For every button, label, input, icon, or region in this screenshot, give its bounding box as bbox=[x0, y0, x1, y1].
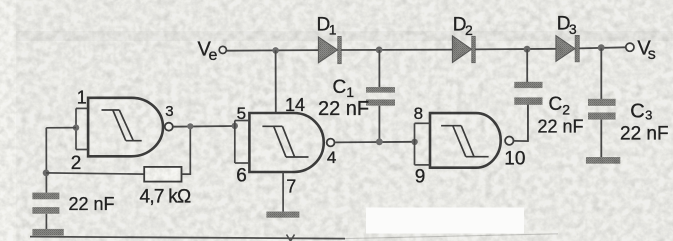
label C2 bbox=[549, 94, 571, 117]
op U1c: Schmitt NAND gate 3 body bbox=[430, 113, 501, 168]
label Vs bbox=[637, 37, 655, 63]
wire: down to timing cap bbox=[45, 128, 47, 193]
node: cap / feedback junction bbox=[43, 170, 50, 177]
label Ve bbox=[198, 39, 218, 65]
node junction: rail to C2 bbox=[524, 46, 531, 53]
bubble output U1a bbox=[165, 123, 173, 131]
node junction: rail to pin 14 bbox=[272, 47, 279, 54]
ground (timing cap) bbox=[32, 229, 63, 236]
op U1a: Schmitt NAND gate 1 body bbox=[88, 98, 163, 157]
capacitor C2 bbox=[514, 49, 542, 141]
wire: feedback node to resistor bbox=[46, 173, 144, 174]
resistor R1 4,7 kOhm bbox=[144, 167, 181, 182]
ground (pin 7) bbox=[266, 212, 299, 218]
input bracket U1c (pins 8-9 tied) bbox=[415, 123, 430, 165]
scan artifact: clipped glyph bbox=[287, 235, 295, 241]
wire: D3 cathode to Vs terminal bbox=[580, 47, 626, 48]
input bracket U1b (pins 5-6 tied) bbox=[235, 121, 249, 164]
capacitor C3 bbox=[588, 48, 616, 157]
lighter left margin bbox=[0, 0, 16, 241]
node junction: rail to C1 bbox=[376, 47, 383, 54]
diode D3 bbox=[556, 35, 579, 62]
label D2 bbox=[453, 15, 473, 38]
wire: U1a output to U1b input bbox=[173, 125, 235, 128]
label D1 bbox=[317, 14, 337, 37]
ground (C3) bbox=[586, 157, 620, 164]
wire: U1b output to U1c input bbox=[335, 141, 415, 144]
label C1 bbox=[333, 77, 355, 100]
input bracket U1a (pins 1-2 tied) bbox=[76, 108, 88, 149]
hysteresis symbol U1c bbox=[441, 126, 489, 157]
wire: rail down to pin 14 of U1b bbox=[275, 50, 277, 113]
white correction patch bbox=[366, 208, 524, 234]
node: input of U1c bbox=[411, 139, 417, 145]
terminal Ve (input node) bbox=[219, 46, 226, 53]
hysteresis symbol U1b bbox=[262, 126, 308, 157]
scan artifact: bottom rule bbox=[30, 237, 345, 239]
op U1b: Schmitt NAND gate 2 body bbox=[249, 113, 323, 172]
label C3 bbox=[630, 101, 652, 123]
label D3 bbox=[557, 14, 577, 38]
capacitor 22 nF (timing, left) bbox=[32, 193, 59, 230]
capacitor C1 bbox=[366, 50, 395, 142]
diode D1 bbox=[318, 36, 341, 64]
faint scan band top bbox=[16, 31, 673, 41]
terminal Vs (output node) bbox=[626, 43, 634, 51]
node junction: rail to C3 bbox=[598, 44, 605, 51]
node: output 3 / feedback bbox=[187, 123, 193, 129]
wire: D1 cathode to D2 anode bbox=[341, 49, 452, 51]
wire: resistor to output node bbox=[182, 126, 191, 174]
wire: Ve terminal to D1 anode bbox=[227, 49, 319, 52]
node: input of U1a bbox=[73, 124, 79, 130]
diode D2 bbox=[452, 36, 475, 63]
wire: U1c output up to C2 bottom bbox=[514, 105, 528, 141]
node: input of U1b bbox=[232, 123, 238, 129]
hysteresis symbol U1a bbox=[102, 110, 142, 141]
wire: input node left bbox=[46, 127, 76, 129]
wire: D2 cathode to D3 anode bbox=[475, 48, 556, 51]
bubble output U1c bbox=[505, 137, 513, 145]
wire: pin 7 to ground bbox=[282, 172, 284, 212]
bubble output U1b bbox=[327, 139, 335, 147]
node: C1 bottom junction bbox=[376, 138, 383, 145]
